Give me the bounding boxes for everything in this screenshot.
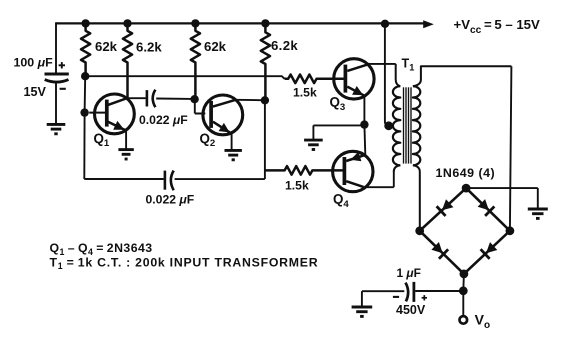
svg-text:1 μF: 1 μF [397,266,421,280]
svg-text:0.022 μF: 0.022 μF [139,113,188,127]
svg-text:450V: 450V [396,303,426,317]
svg-text:100 μF: 100 μF [14,56,54,70]
svg-text:6.2k: 6.2k [136,40,162,55]
svg-text:T1 = 1k C.T. : 200k INPUT TRAN: T1 = 1k C.T. : 200k INPUT TRANSFORMER [50,255,319,271]
svg-text:62k: 62k [204,39,227,54]
svg-text:1.5k: 1.5k [285,179,309,193]
svg-text:1N649 (4): 1N649 (4) [436,166,496,180]
svg-text:15V: 15V [24,85,47,99]
svg-text:6.2k: 6.2k [271,38,298,53]
svg-text:0.022 μF: 0.022 μF [146,192,195,206]
svg-text:1.5k: 1.5k [293,86,317,100]
svg-text:62k: 62k [95,39,118,54]
